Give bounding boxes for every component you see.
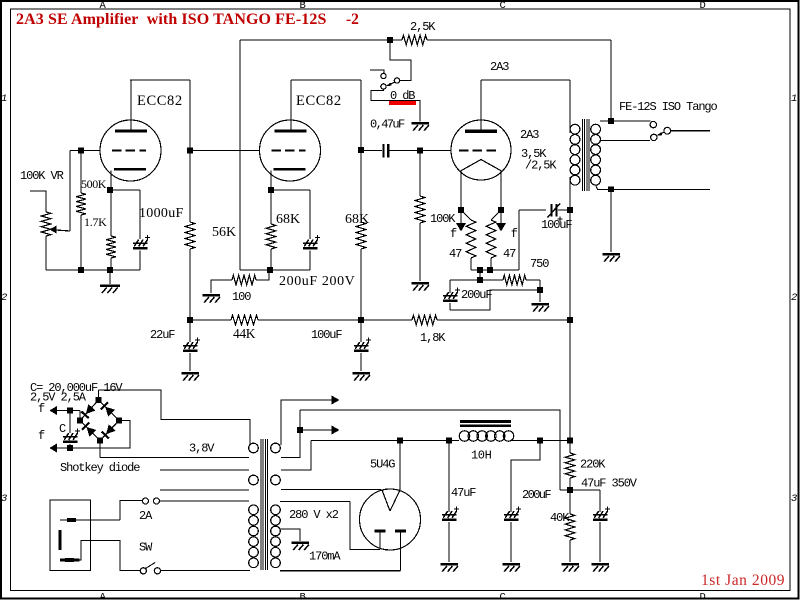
svg-text:C: C: [500, 0, 506, 12]
svg-text:200uF: 200uF: [461, 288, 492, 302]
svg-text:3: 3: [1, 493, 7, 505]
svg-text:47: 47: [503, 247, 516, 261]
svg-text:2A: 2A: [139, 509, 153, 523]
svg-text:/2,5K: /2,5K: [525, 159, 557, 173]
svg-text:1: 1: [791, 93, 797, 105]
svg-text:1000uF: 1000uF: [139, 206, 184, 221]
svg-text:200uF 200V: 200uF 200V: [279, 274, 355, 289]
svg-text:1st Jan 2009: 1st Jan 2009: [701, 572, 785, 589]
svg-text:0,47uF: 0,47uF: [370, 118, 405, 132]
svg-text:47uF: 47uF: [451, 486, 476, 500]
svg-text:280 V x2: 280 V x2: [289, 508, 339, 522]
svg-text:47uF 350V: 47uF 350V: [581, 477, 638, 491]
svg-text:2: 2: [1, 292, 7, 304]
svg-text:B: B: [300, 591, 306, 600]
svg-text:ECC82: ECC82: [137, 93, 183, 109]
svg-text:1,8K: 1,8K: [420, 331, 446, 345]
svg-text:2A3 SE Amplifier with ISO TAN: 2A3 SE Amplifier with ISO TANGO FE-12S: [16, 11, 326, 28]
svg-text:68K: 68K: [345, 212, 369, 227]
svg-text:3,8V: 3,8V: [189, 442, 215, 456]
svg-text:40K: 40K: [550, 511, 570, 525]
svg-text:-2: -2: [346, 11, 359, 28]
svg-text:3: 3: [791, 493, 797, 505]
svg-text:SW: SW: [139, 541, 153, 555]
svg-text:170mA: 170mA: [309, 550, 341, 564]
svg-text:44K: 44K: [233, 326, 256, 341]
svg-text:10H: 10H: [471, 449, 492, 463]
svg-text:220K: 220K: [580, 458, 606, 472]
svg-text:Shotkey diode: Shotkey diode: [60, 461, 140, 475]
svg-text:500K: 500K: [81, 177, 107, 191]
svg-text:100uF: 100uF: [311, 328, 342, 342]
svg-text:ECC82: ECC82: [296, 93, 342, 109]
svg-text:750: 750: [530, 257, 549, 271]
svg-text:C: C: [500, 591, 506, 600]
svg-text:2A3: 2A3: [520, 128, 539, 142]
svg-text:f: f: [38, 429, 45, 443]
svg-text:C: C: [59, 422, 66, 436]
svg-text:22uF: 22uF: [150, 328, 175, 342]
svg-text:0 dB: 0 dB: [390, 89, 415, 103]
svg-text:1: 1: [1, 93, 7, 105]
svg-text:200uF: 200uF: [522, 488, 551, 502]
svg-text:47: 47: [449, 247, 462, 261]
svg-text:f: f: [511, 227, 518, 241]
svg-text:2,5K: 2,5K: [410, 20, 436, 34]
svg-text:100: 100: [232, 290, 251, 304]
svg-text:f: f: [450, 227, 457, 241]
svg-text:5U4G: 5U4G: [370, 458, 395, 472]
svg-text:100K: 100K: [430, 212, 456, 226]
svg-text:100K VR: 100K VR: [20, 169, 64, 183]
svg-text:FE-12S ISO Tango: FE-12S ISO Tango: [619, 100, 718, 114]
svg-text:D: D: [700, 0, 706, 12]
svg-text:D: D: [700, 591, 706, 600]
svg-text:100uF: 100uF: [541, 218, 572, 232]
svg-text:56K: 56K: [212, 225, 236, 240]
svg-text:1.7K: 1.7K: [84, 215, 107, 229]
svg-text:2A3: 2A3: [490, 60, 509, 74]
svg-text:68K: 68K: [276, 212, 300, 227]
svg-text:f: f: [38, 402, 45, 416]
svg-text:2: 2: [791, 292, 797, 304]
